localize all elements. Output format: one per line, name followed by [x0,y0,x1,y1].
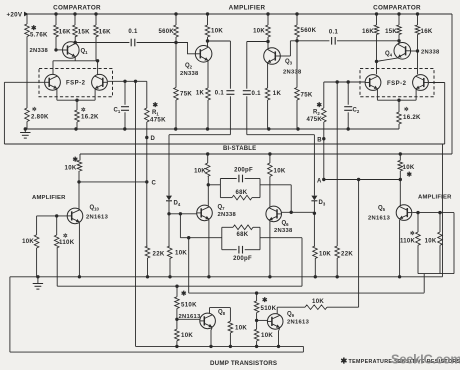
resistor 22K right [335,246,353,277]
wire upper net left vert [219,179,221,198]
svg-text:2N338: 2N338 [218,212,237,218]
+20V supply label [7,12,23,19]
wire Q6 collector [269,176,271,207]
wire 22K left column [146,182,148,246]
svg-text:Q3: Q3 [285,59,293,66]
svg-text:2N1613: 2N1613 [368,216,391,222]
transistor Q7 [197,205,213,221]
wire cap-A jog [169,134,230,136]
wire Q2 collector junction [206,37,231,47]
wire upper net right tap [260,184,291,186]
wire left outer feedback [4,82,44,144]
svg-text:✱: ✱ [341,357,348,366]
label 2N1613 for Q5 [368,216,391,222]
wire left outer bottom drop [9,277,11,352]
ground symbol mid-left [20,129,30,138]
svg-text:✲: ✲ [410,230,415,237]
svg-text:10K: 10K [253,29,265,35]
wire +20V rail [26,13,452,15]
resistor 1K right [265,88,281,129]
bus5 y293 dump [189,291,425,294]
diode D4 [166,135,181,214]
capacitor 0.1 couplingB [243,42,261,135]
svg-text:10K: 10K [194,169,206,175]
wire Q5 emitter [399,220,401,277]
resistor 10K dump-left [175,319,194,346]
svg-text:22K: 22K [153,251,165,258]
+20V rail arrow [24,12,29,17]
svg-text:22K: 22K [341,251,353,258]
wire lower right drop to bus4 [301,238,303,287]
resistor 10K horizontal dump [305,298,359,309]
label Q8 [218,310,226,317]
svg-text:2N1613: 2N1613 [86,214,109,220]
label Q1 [81,49,89,56]
svg-text:15K: 15K [385,29,397,35]
label 2N1613 for Q9 [287,319,310,325]
resistor 110K left [54,232,74,286]
resistor 1K left [196,88,210,129]
svg-text:10K: 10K [235,325,247,332]
svg-text:BI-STABLE: BI-STABLE [223,146,256,152]
wire lower net left vert [221,227,223,249]
svg-text:0.1: 0.1 [128,29,138,35]
svg-text:✱: ✱ [262,296,268,304]
svg-text:560K: 560K [158,29,174,35]
wire Q6 emitter [269,221,271,277]
wire cap-B jog [247,134,315,136]
bus6 dump emitters y346.4 [136,345,304,348]
bus feedback y144 [4,143,444,145]
svg-text:75K: 75K [301,92,313,99]
bus3 common y276.8 [10,275,443,278]
transistor Q5 [396,205,412,221]
wire left FSP-l collector drop [52,61,54,75]
label Q3 [285,59,293,66]
wire Q9 base [255,313,267,322]
svg-text:2N338: 2N338 [274,228,293,234]
svg-text:✱: ✱ [317,101,323,109]
label Q4 [385,51,393,58]
wire right outer feedback [429,83,445,145]
label AMPLIFIER right [418,195,452,201]
resistor 16.2K right [397,100,421,129]
transistor Q8 [200,313,216,329]
svg-text:C1: C1 [114,108,121,115]
label Q6 [282,220,290,227]
wire Q1 base [54,37,62,52]
resistor 10K dump-right [254,320,273,346]
wire Q8 emitter [211,328,212,347]
resistor 75K right [295,41,313,129]
label COMPARATOR right [373,5,421,12]
svg-text:68K: 68K [236,190,248,196]
junction 560K/cap/75K [174,41,177,44]
wire Q7 emitter [208,220,210,277]
svg-text:SeekIC.com: SeekIC.com [391,352,460,367]
resistor 110K right [400,213,420,274]
capacitor 0.1 right-amp [290,30,399,45]
resistor 2.80K [25,37,49,130]
svg-text:AMPLIFIER: AMPLIFIER [229,5,266,12]
svg-text:Q1: Q1 [81,49,89,56]
svg-text:200pF: 200pF [233,256,252,262]
resistor 10K left-amp-bias [22,235,39,277]
resistor 10K* right-mid [398,154,415,180]
resistor 16K right-b [415,14,433,35]
resistor 10K bistable-right [268,154,286,176]
label 2N338 for Q7 [218,212,237,218]
FSP-2 left transistor A [45,74,61,90]
label FSP-2 left [66,81,86,87]
svg-text:5.76K: 5.76K [30,32,48,39]
wire FSP-2 right emitters join [377,89,416,102]
svg-text:75K: 75K [180,91,192,98]
wire node C line [77,180,147,183]
svg-text:2.80K: 2.80K [31,114,49,121]
transistor Q3 [264,48,281,65]
svg-text:2N338: 2N338 [180,71,199,77]
resistor 16K left-b [94,14,111,37]
label Q10 [90,205,100,212]
svg-text:B: B [317,138,322,144]
FSP-2 right transistor A [365,75,381,91]
long wire x135.5 down [135,81,137,346]
wire Q3 emitter [267,63,269,88]
wire upper to Q6 base [290,185,292,213]
svg-text:0.1: 0.1 [329,30,339,36]
capacitor 0.1 couplingA [215,41,235,135]
label AMPLIFIER top [229,5,266,12]
wire Q10 base line [37,214,68,235]
resistor 10K bistable-left [194,154,210,176]
FSP-2 right transistor B [413,75,429,91]
svg-text:Q6: Q6 [282,220,290,227]
resistor 68K lower [222,225,260,238]
transistor Q1 [63,42,80,59]
label BI-STABLE [223,146,256,152]
wire Q10 collector [78,182,80,209]
wire right FSP-l collector [376,61,378,74]
wire Q3 collector junction [247,37,270,49]
label AMPLIFIER left [32,195,66,201]
svg-text:R2: R2 [313,110,320,117]
wire Q2 emitter [207,61,209,88]
resistor 10K right-amp-bias [425,213,443,274]
mid ground rail [24,127,399,130]
svg-text:2N1613: 2N1613 [179,314,202,320]
wire left FSP-r collector drop [97,61,99,75]
wire lower net right tap [260,237,302,239]
bus +20V distribution y156.2 [80,152,452,155]
svg-text:475K: 475K [306,117,322,123]
svg-text:FSP-2: FSP-2 [387,81,407,87]
transistor Q9 [267,314,283,330]
svg-text:✱: ✱ [73,156,79,164]
svg-text:200pF: 200pF [234,167,253,173]
svg-text:A: A [317,179,322,185]
wire FSP-2 left emitters join [57,89,95,102]
svg-text:C2: C2 [353,108,360,115]
outer bottom wire [10,346,304,352]
wire Q9 collector [277,307,305,314]
wire Q1 collector [74,37,77,44]
ground stub bottom [33,277,43,289]
wire upper net right vert [259,179,261,198]
capacitor 200pF lower [222,246,260,262]
label DUMP TRANSISTORS [210,360,277,367]
wire Q3 base [280,41,290,56]
svg-text:Q10: Q10 [90,205,100,212]
wire Q4 emitter diag [375,58,398,63]
FSP-2 left dashed box [39,69,113,97]
svg-text:DUMP TRANSISTORS: DUMP TRANSISTORS [210,360,277,367]
wire Q9 emitter [279,329,280,347]
wire bus5 riser [188,238,190,293]
svg-text:D: D [151,136,156,142]
node A [317,178,325,185]
svg-text:510K: 510K [181,302,197,309]
resistor 15K right [385,14,401,35]
svg-text:16K: 16K [421,28,433,35]
svg-text:10K: 10K [175,250,187,257]
svg-text:D3: D3 [319,200,326,207]
svg-text:16K: 16K [59,29,71,36]
svg-text:✲: ✲ [81,107,86,114]
resistor 16K left-a [54,14,71,37]
FSP-2 left transistor B [92,74,108,90]
svg-text:16.2K: 16.2K [403,114,421,121]
FSP-2 right dashed box [360,69,434,97]
svg-text:110K: 110K [400,238,416,244]
resistor 16K right-a [362,14,379,35]
svg-text:Q2: Q2 [185,63,193,70]
wire Q6 base [282,211,317,215]
resistor 68K upper [220,190,260,200]
svg-text:10K: 10K [274,168,286,175]
svg-text:✱: ✱ [153,101,159,109]
svg-text:1K: 1K [196,90,205,96]
wire Q7 collector [207,176,210,206]
resistor 22K left [145,246,165,277]
wire Q8 collector [210,308,231,322]
wire +20V right edge drop [451,14,453,154]
resistor 10K on D4 line [167,214,187,277]
wire Q10 emitter [78,223,80,277]
svg-text:COMPARATOR: COMPARATOR [373,5,421,12]
label Q2 [185,63,193,70]
watermark SeekIC.com [391,352,460,367]
capacitor C2 [344,82,360,129]
label Q9 [287,312,295,319]
svg-text:Q4: Q4 [385,51,393,58]
svg-text:AMPLIFIER: AMPLIFIER [418,195,452,201]
wire Q1 emitter [74,57,76,61]
node B [317,137,325,144]
transistor Q10 [67,208,83,224]
label FSP-2 right [387,81,407,87]
resistor R2 475K [306,82,326,180]
resistor 10K left-amp-top [205,14,223,37]
svg-text:+20V: +20V [7,12,23,19]
wire riser to bus5 right [423,274,425,293]
svg-text:Q7: Q7 [218,204,226,211]
svg-text:10K: 10K [425,238,437,244]
node D [145,136,155,142]
svg-text:10K: 10K [403,164,415,171]
wire dump to node A riser [357,178,360,307]
wire left FSP-r base line [108,80,147,83]
label 2N338 for Q2 [180,71,199,77]
svg-text:510K: 510K [261,305,277,312]
svg-text:C: C [152,181,157,187]
junctions on +20V rail [54,12,419,15]
svg-text:10K: 10K [181,332,193,339]
wire 16K-b down [95,37,97,61]
wire upper net left tap [208,184,220,186]
svg-text:68K: 68K [237,232,249,238]
resistor 10K* left-mid [65,154,82,182]
svg-text:✲: ✲ [32,106,37,113]
temperature note [341,357,460,366]
capacitor 0.1 left-amp [75,29,176,46]
resistor 510K right [254,293,276,313]
transistor Q6 [266,206,282,222]
wire Q4 collector [397,35,400,45]
svg-text:16K: 16K [99,29,111,36]
wire Q5 base line [412,211,454,214]
resistor 10K Q8-collector [228,321,247,346]
wire lower net left tap [180,214,221,240]
label Q5 [378,206,386,213]
svg-text:15K: 15K [78,29,90,36]
resistor 16.2K left [75,107,99,130]
svg-text:10K: 10K [211,28,223,35]
svg-text:560K: 560K [301,27,317,34]
label Q7 [218,204,226,211]
resistor 560K right [295,14,317,41]
wire bus3 right end riser [442,144,444,277]
svg-text:Q9: Q9 [287,312,295,319]
svg-text:10K: 10K [319,251,331,258]
wire right amp bottom bar [418,213,454,274]
svg-text:✲: ✲ [404,106,409,113]
svg-text:16K: 16K [362,29,374,35]
svg-text:10K: 10K [65,164,77,171]
svg-text:2N338: 2N338 [30,48,49,54]
resistor 510K left [175,286,197,308]
bus4 y286 from 110K-left [57,285,302,288]
resistor R1 475K [145,81,167,182]
transistor Q4 [394,43,411,60]
label COMPARATOR left [53,5,101,12]
wire right FSP-l base line [324,80,365,83]
wire to Q2 base [176,43,195,54]
svg-text:✱: ✱ [407,171,413,179]
svg-text:10K: 10K [22,239,34,245]
wire right FSP-r collector [417,51,419,74]
wire lower net right vert [259,227,261,249]
capacitor C1 [114,81,130,129]
svg-text:Q8: Q8 [218,310,226,317]
wire node A line [324,178,402,181]
svg-text:16.2K: 16.2K [81,114,99,121]
wire Q8 base [175,309,200,321]
label 2N338 for Q4 [421,50,440,56]
resistor 10K on D3 line [313,213,332,276]
resistor 15K left [73,14,90,37]
node C [145,180,156,186]
capacitor 200pF upper [220,167,260,182]
svg-text:2N338: 2N338 [421,50,440,56]
svg-text:2N1613: 2N1613 [287,319,310,325]
svg-text:COMPARATOR: COMPARATOR [53,5,101,12]
long wire x337 down [336,82,338,246]
svg-text:10K: 10K [261,332,273,339]
svg-text:Q5: Q5 [378,206,386,213]
svg-text:0.1: 0.1 [215,90,225,96]
label 2N1613 for Q8 [179,314,202,320]
resistor 5.76K [25,14,48,39]
svg-text:110K: 110K [59,239,75,246]
svg-text:475K: 475K [150,117,166,124]
svg-text:FSP-2: FSP-2 [66,81,86,87]
label 2N338 for Q6 [274,228,293,234]
label 2N1613 for Q10 [86,214,109,220]
svg-text:2N338: 2N338 [283,70,302,76]
wire Q5 collector [399,180,401,206]
resistor 560K left [158,14,178,43]
junction 560K-r [295,39,298,42]
wire emitter bar y60.8 [53,59,99,62]
svg-text:10K: 10K [312,298,324,305]
svg-text:0.1: 0.1 [252,90,262,97]
svg-text:AMPLIFIER: AMPLIFIER [32,195,66,201]
wire 16K-ra down [376,35,378,62]
resistor 10K right-amp-top [253,14,270,37]
label 2N338 for Q1 [30,48,49,54]
svg-text:D4: D4 [174,201,181,208]
svg-text:1K: 1K [273,90,282,97]
wire Q4 base [411,35,420,53]
diode D3 [311,135,325,214]
resistor 75K left [174,43,193,130]
transistor Q2 [195,46,212,63]
label 2N338 for Q3 [283,70,302,76]
wire Q7 base [167,212,196,215]
wire 16.2K left column [76,100,78,110]
svg-text:✱: ✱ [181,289,187,297]
